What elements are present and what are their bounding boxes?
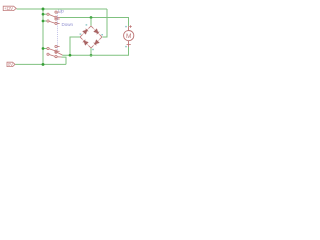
diode D3 lower-right: [94, 40, 99, 45]
wire dashed linkage: [57, 13, 59, 51]
wire stub to SW2A common: [43, 48, 47, 50]
switch SW2 pole A: [47, 45, 60, 52]
wire SW2 lower throw to bottom rail: [62, 57, 67, 64]
wire right vertical x=107: [103, 9, 108, 37]
svg-text:Up: Up: [58, 9, 64, 14]
wire stub bridge top vertex: [90, 18, 92, 27]
wire stub to SW1A common: [43, 13, 47, 15]
svg-text:M: M: [126, 33, 132, 40]
svg-text:0V: 0V: [8, 62, 13, 67]
node junction SW1A: [42, 13, 45, 16]
wire stub to SW1B common: [43, 20, 47, 22]
wire +12V rail: [17, 8, 108, 10]
pin marks cyan motor: [125, 26, 127, 47]
node junction rail/bus: [42, 8, 45, 11]
diode D4 lower-left: [83, 40, 88, 45]
switch SW1 pole A: [47, 11, 60, 18]
motor M1: [124, 25, 134, 47]
wire bottom 0V rail: [15, 63, 66, 65]
svg-text:+12V: +12V: [4, 6, 13, 11]
node junction bottom bus: [42, 63, 45, 66]
switch SW1 pole B: [47, 18, 60, 25]
wire switch output to motor top: [60, 18, 129, 27]
node junction bridge bottom: [90, 54, 93, 57]
wire vertical left bus x=43: [42, 9, 44, 64]
power label +12V: [3, 6, 16, 10]
node junction SW1B: [42, 20, 45, 23]
diode D1 upper-left: [83, 29, 88, 34]
svg-text:Down: Down: [62, 22, 74, 27]
node junction left vertex wire: [69, 54, 72, 57]
wire stub bridge bottom vertex: [90, 48, 92, 55]
pin number marks cyan: [80, 24, 103, 50]
bridge vertex pins: [80, 26, 102, 48]
diode D2 upper-right: [94, 29, 99, 34]
node junction bridge top: [90, 16, 93, 19]
switch SW2 pole B: [47, 51, 63, 58]
power label 0V: [7, 62, 15, 66]
bridge diamond edges: [80, 26, 102, 48]
wire bridge left vertex to x=70: [70, 37, 80, 55]
node junction SW2A: [42, 47, 45, 50]
wire motor bottom run: [63, 47, 129, 55]
